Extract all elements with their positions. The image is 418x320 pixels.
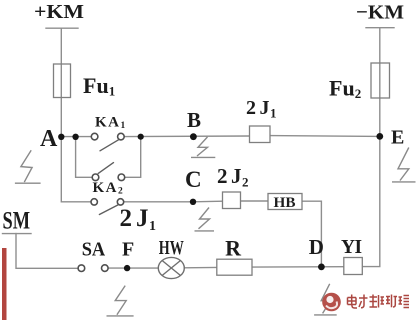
junction dot KA1/KA2	[138, 134, 144, 140]
terminal bar -KM	[366, 27, 394, 29]
wire: right rail from E down to YI branch	[362, 136, 380, 266]
svg-text:Y: Y	[341, 237, 355, 258]
node E junction dot	[376, 133, 383, 140]
wire: resistor R to node D to YI	[252, 266, 344, 268]
wire: 2J1 contact to node C	[124, 201, 193, 203]
device HB	[268, 194, 302, 210]
wire: KA1 right contact to node B to coil 2J1	[124, 135, 249, 138]
arrow symbol under node B	[191, 137, 215, 158]
wire: coil 2J1 to node E	[270, 135, 380, 138]
terminal bar SM	[3, 233, 32, 235]
wire: left rail from A down to 2J1 contact row	[61, 137, 91, 202]
contact KA2 blade	[98, 163, 113, 174]
relay coil 2J1	[250, 126, 271, 143]
contact KA2 circles	[92, 174, 99, 181]
contact 2J1 circles	[91, 199, 97, 205]
contact KA1 circles	[91, 133, 98, 140]
svg-text:HB: HB	[274, 195, 296, 211]
contact KA1 blade	[100, 140, 119, 151]
arrow symbol under node F	[107, 286, 134, 316]
watermark red bar left edge	[2, 248, 7, 320]
wire: SM lead down and right to SA	[16, 234, 78, 269]
junction dot branch rail	[72, 134, 78, 140]
svg-text:−KM: −KM	[356, 2, 404, 24]
svg-text:D: D	[309, 235, 324, 259]
wire: node C to coil 2J2	[193, 200, 223, 203]
lamp HW	[158, 257, 184, 278]
svg-text:F: F	[122, 238, 134, 260]
switch SA circles	[78, 265, 85, 272]
node A junction dot	[58, 134, 64, 140]
wire: -KM rail down to node E	[379, 28, 381, 137]
arrow symbol under node E	[392, 148, 416, 182]
wire: KA2 branch right leg up to row1 junction	[125, 137, 141, 178]
relay coil 2J2	[223, 192, 241, 209]
svg-text:R: R	[225, 235, 242, 260]
svg-text:C: C	[185, 167, 202, 192]
svg-text:B: B	[187, 108, 201, 132]
svg-text:HW: HW	[159, 237, 184, 259]
wire: +KM rail down to node A	[60, 28, 62, 136]
arrow symbol under node D	[314, 284, 337, 315]
terminal bar +KM	[46, 27, 78, 29]
watermark text 电力知识课堂 (stylized strokes)	[348, 295, 410, 309]
resistor R	[217, 259, 252, 275]
arrow symbol under node A	[15, 150, 41, 183]
contact 2J1 blade	[99, 205, 117, 215]
fuse Fu1	[54, 64, 71, 98]
node D junction dot	[318, 264, 325, 271]
watermark logo icon	[322, 293, 341, 312]
wire: HB to branch corner down to node D	[302, 201, 321, 267]
svg-text:+KM: +KM	[34, 1, 84, 23]
wire: SA to node F to lamp HW	[108, 267, 158, 269]
svg-text:E: E	[391, 127, 404, 149]
node F junction dot	[124, 265, 130, 271]
svg-text:SA: SA	[82, 238, 106, 260]
coil YI	[344, 258, 363, 275]
fuse Fu2	[371, 63, 390, 98]
wire: coil 2J2 to HB	[241, 200, 269, 202]
node B junction dot	[190, 133, 197, 140]
svg-text:SM: SM	[3, 208, 31, 235]
arrow symbol under node C	[195, 208, 215, 231]
node C junction dot	[190, 199, 196, 205]
wire: KA2 branch left leg	[76, 137, 93, 178]
svg-text:A: A	[40, 126, 58, 152]
wire: row1 A to KA1 left contact	[61, 136, 91, 138]
wire: lamp HW to resistor R	[184, 266, 216, 268]
svg-text:I: I	[355, 237, 363, 258]
